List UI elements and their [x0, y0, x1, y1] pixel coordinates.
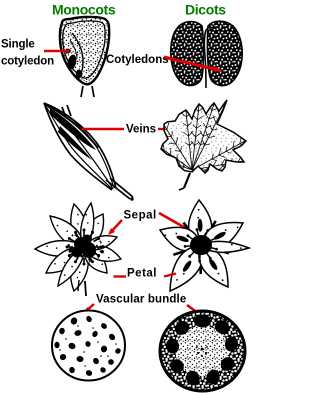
dicot stem cross-section (ring of bundles)	[160, 311, 245, 391]
leader dash petal left (red)	[114, 275, 127, 277]
label Single cotyledon	[1, 39, 54, 68]
dicot flower center	[190, 235, 212, 255]
leader line sepal right (red)	[159, 213, 192, 232]
monocot stem cross-section (scattered bundles)	[52, 311, 125, 381]
leader line vascular right (red)	[187, 305, 205, 318]
monocot flower (lily)	[35, 203, 121, 296]
svg-text:Dicots: Dicots	[185, 2, 226, 18]
leader line veins right (red)	[158, 128, 172, 130]
svg-text:Sepal: Sepal	[124, 210, 157, 222]
dicot flower sepals	[184, 223, 196, 238]
leader line single cotyledon (red)	[44, 50, 69, 53]
dicot flower petals	[189, 200, 212, 240]
svg-text:Veins: Veins	[126, 124, 156, 136]
svg-text:Cotyledons: Cotyledons	[106, 54, 169, 66]
svg-text:cotyledon: cotyledon	[1, 56, 54, 68]
dicot seed right cotyledon	[207, 21, 242, 85]
svg-text:Petal: Petal	[127, 268, 157, 280]
svg-text:Monocots: Monocots	[52, 2, 116, 18]
leader line vascular left (red)	[84, 304, 94, 313]
leader dash petal right (red)	[164, 274, 176, 277]
dicot leaf (net veins)	[159, 100, 246, 190]
svg-text:Single: Single	[1, 39, 35, 51]
monocot seed roots	[81, 86, 94, 97]
monocot leaf (parallel veins)	[44, 103, 134, 201]
dicot flower (star)	[160, 200, 249, 291]
monocot seed (corn kernel)	[60, 17, 109, 84]
dicot seed embryo	[204, 27, 212, 88]
leader line sepal left (red)	[108, 220, 122, 235]
monocot flower center (stamens)	[74, 237, 88, 251]
leader line veins left (red)	[82, 128, 124, 130]
leader line cotyledons (red)	[164, 57, 222, 72]
dicot seed left cotyledon	[171, 22, 204, 86]
svg-text:Vascular bundle: Vascular bundle	[96, 294, 186, 306]
